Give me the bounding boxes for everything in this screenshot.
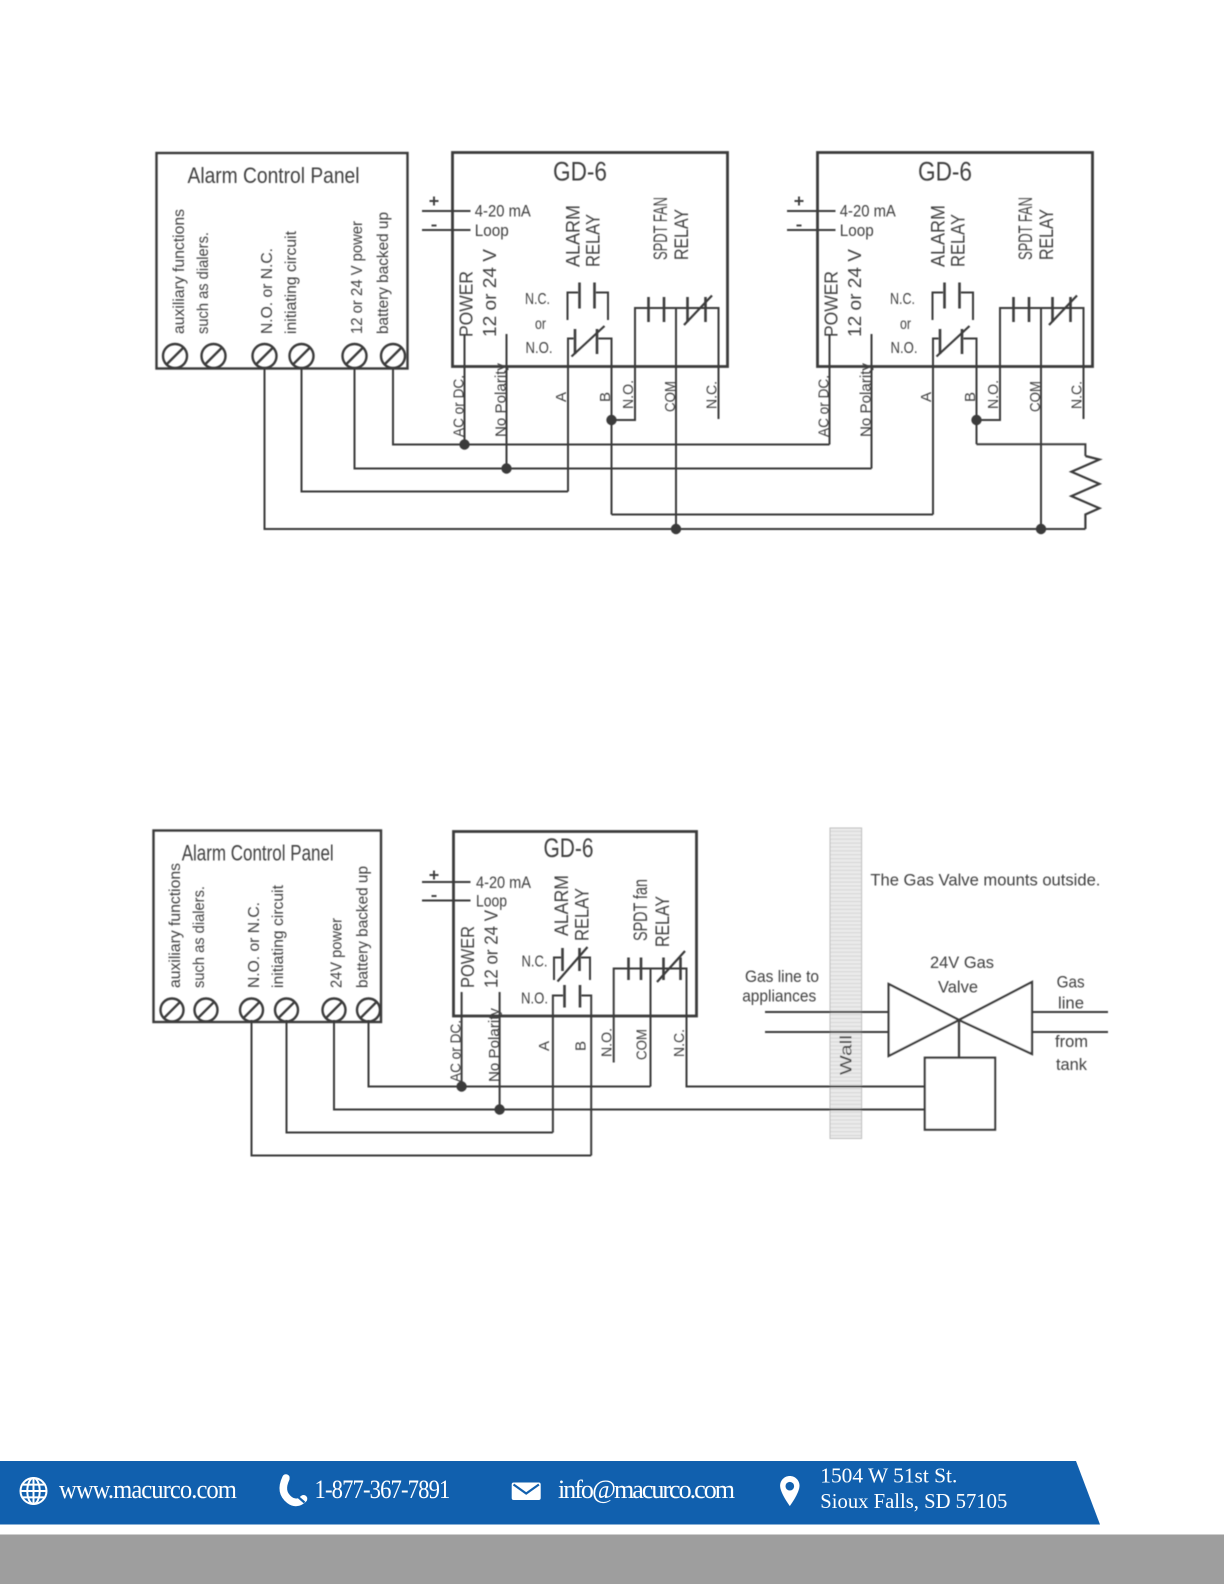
globe icon — [21, 1478, 47, 1504]
junction: COM GD1 on return — [671, 524, 681, 534]
GD-6 detector 2 box — [818, 153, 1093, 367]
alarm control panel box — [157, 153, 408, 369]
wire: B pin GD1 below box — [611, 367, 613, 515]
junction: No-Polarity GD3 — [494, 1104, 504, 1114]
svg-text:RELAY: RELAY — [1037, 209, 1058, 260]
svg-text:ALARM: ALARM — [552, 875, 573, 936]
svg-text:GD-6: GD-6 — [553, 157, 607, 187]
wire: AC/DC pin GD3 below box — [461, 1016, 463, 1087]
wire: loop + (2) — [787, 210, 836, 212]
alarm relay N.C. contact (3, slashed, stubs) — [554, 958, 561, 981]
svg-text:POWER: POWER — [456, 271, 476, 337]
svg-text:A: A — [536, 1041, 553, 1051]
4-20 mA loop + terminal (1) — [430, 200, 439, 202]
junction: No-Polarity GD1 — [501, 463, 511, 473]
alarm relay contact slash (1) — [572, 326, 605, 357]
terminal screw 6 — [357, 999, 380, 1022]
wire: No-Polarity pin GD2 below box — [871, 367, 873, 469]
footer gray bar — [0, 1535, 1224, 1584]
svg-text:RELAY: RELAY — [584, 214, 605, 267]
wire: loop + (1) — [422, 210, 471, 212]
terminal screw 4 — [275, 999, 298, 1022]
junction: B/N.O. GD1 — [606, 415, 616, 425]
svg-text:line: line — [1058, 994, 1084, 1013]
fan relay N.O. contact bars (2) — [1012, 297, 1015, 322]
gas pipe to appliances (upper) — [765, 1011, 889, 1013]
wire: N.O. fan GD1 jog to B — [612, 367, 636, 421]
fan relay N.C. slash (1) — [684, 296, 712, 326]
svg-text:or: or — [900, 316, 912, 333]
svg-text:24V Gas: 24V Gas — [930, 954, 994, 972]
terminal screw 6 — [381, 344, 405, 368]
svg-text:N.C.: N.C. — [890, 291, 915, 308]
phone icon — [283, 1478, 303, 1502]
wire: power AC/DC (1) — [464, 334, 466, 367]
wire: power No-Polarity (1) — [506, 334, 508, 367]
terminal screw 1 — [161, 999, 184, 1022]
svg-text:N.O.: N.O. — [526, 340, 553, 357]
fan relay N.C. contact bars (2) — [1051, 297, 1054, 322]
junction: AC/DC GD3 — [456, 1081, 466, 1091]
wire: power No-Polarity (2) — [871, 334, 873, 367]
svg-text:12 or 24 V power: 12 or 24 V power — [349, 221, 366, 334]
alarm relay N.C. contact (1) — [568, 293, 579, 321]
svg-text:N.O.: N.O. — [891, 340, 918, 357]
wire: B pin GD2 below box — [976, 367, 978, 445]
svg-text:B: B — [572, 1041, 589, 1051]
wire: No-Polarity pin GD1 below box — [506, 367, 508, 469]
gas pipe from tank (lower) — [1032, 1031, 1108, 1033]
svg-text:Gas line to: Gas line to — [745, 968, 819, 986]
svg-text:RELAY: RELAY — [653, 896, 674, 947]
GD-6 detector 1 box — [453, 153, 728, 367]
junction: AC/DC GD1 power — [459, 439, 469, 449]
fan relay bus wire (2) — [1000, 308, 1084, 367]
svg-text:Loop: Loop — [475, 222, 509, 240]
fan relay N.C. slash (3) — [657, 951, 685, 982]
svg-text:4-20 mA: 4-20 mA — [476, 874, 531, 892]
svg-text:RELAY: RELAY — [672, 209, 693, 260]
svg-text:POWER: POWER — [821, 271, 841, 337]
svg-text:Loop: Loop — [840, 222, 874, 240]
wire: A pin GD2 below box — [932, 367, 934, 515]
wire: AC/DC pin GD1 below box — [464, 367, 466, 445]
wire: battery terminal T6 to AC/DC power both GD — [393, 369, 830, 445]
svg-text:N.C.: N.C. — [671, 1029, 688, 1057]
svg-text:Wall: Wall — [838, 1035, 856, 1075]
svg-text:1504 W 51st St.: 1504 W 51st St. — [820, 1464, 957, 1488]
svg-text:4-20 mA: 4-20 mA — [840, 203, 896, 221]
svg-text:24V power: 24V power — [329, 918, 346, 988]
svg-text:appliances: appliances — [742, 988, 816, 1006]
junction: B/N.O. GD2 — [971, 415, 981, 425]
svg-text:POWER: POWER — [458, 926, 478, 988]
wall (hatched) — [830, 828, 862, 1139]
fan relay N.C. contact bars (3) — [662, 958, 665, 981]
svg-text:www.macurco.com: www.macurco.com — [59, 1475, 237, 1504]
svg-text:Gas: Gas — [1057, 972, 1085, 991]
wire: N.C. stub GD1 — [718, 367, 720, 420]
svg-text:Valve: Valve — [938, 979, 978, 997]
fan relay N.O. contact bars (1) — [647, 297, 650, 322]
valve actuator box (24V solenoid) — [925, 1058, 995, 1130]
fan relay N.C. slash (2) — [1049, 296, 1077, 326]
wire: 24V terminal T5b to No-Polarity and valve — [334, 1020, 925, 1110]
svg-text:RELAY: RELAY — [573, 888, 594, 941]
svg-text:ALARM: ALARM — [929, 205, 950, 267]
fan relay bus wire (1) — [635, 308, 719, 367]
svg-text:such as dialers.: such as dialers. — [195, 232, 212, 334]
fan relay COM wire (3) — [650, 969, 652, 1017]
gas pipe from tank (upper) — [1032, 1011, 1108, 1013]
wire: power AC/DC (3) — [461, 992, 463, 1016]
wire: COM GD1 below box — [675, 367, 677, 530]
terminal screw 5 — [343, 344, 367, 368]
wire: A pin GD1 below box — [567, 367, 569, 492]
svg-text:COM: COM — [633, 1029, 650, 1060]
terminal screw 1 — [163, 344, 187, 368]
4-20 mA loop - terminal (1) — [432, 225, 437, 227]
GD-6 detector 1 — [422, 153, 728, 438]
svg-text:N.O. or N.C.: N.O. or N.C. — [246, 902, 263, 988]
wire: N.O. terminal T3 common return — [265, 369, 1086, 530]
GD-6 detector 3 — [422, 832, 697, 1083]
wire: 12/24V terminal T5 to No-Polarity both GD — [355, 369, 872, 469]
4-20 mA loop - terminal (3) — [432, 895, 437, 897]
wire: B GD1 to A GD2 — [612, 514, 934, 516]
svg-text:battery backed up: battery backed up — [375, 212, 392, 334]
wire: AC/DC pin GD2 below box — [829, 367, 831, 445]
terminal screw 3 — [253, 344, 277, 368]
footer blue banner — [0, 1461, 1100, 1525]
svg-text:RELAY: RELAY — [949, 214, 970, 267]
svg-text:auxiliary functions: auxiliary functions — [167, 863, 184, 988]
valve stem — [958, 1020, 960, 1058]
4-20 mA loop + terminal (2) — [795, 200, 804, 202]
alarm relay contact slash (2) — [937, 326, 970, 357]
svg-text:auxiliary functions: auxiliary functions — [171, 209, 188, 334]
alarm relay N.C. slash (3) — [558, 947, 588, 982]
svg-text:GD-6: GD-6 — [544, 833, 594, 863]
svg-text:initiating circuit: initiating circuit — [270, 884, 287, 988]
wire: loop - (1) — [422, 229, 471, 231]
svg-text:GD-6: GD-6 — [918, 157, 972, 187]
svg-text:SPDT FAN: SPDT FAN — [1016, 197, 1037, 260]
svg-text:N.C.: N.C. — [525, 291, 550, 308]
svg-text:N.C.: N.C. — [522, 954, 548, 971]
wire: loop - (2) — [787, 229, 836, 231]
alarm relay N.O. contact (1) — [568, 339, 574, 367]
terminal screw 3 — [240, 999, 263, 1022]
terminal screw 4 — [290, 344, 314, 368]
wire: B GD2 to EOL resistor — [977, 444, 1086, 456]
wire: N.C. GD3 to gas valve — [687, 1016, 925, 1087]
svg-text:Alarm Control Panel: Alarm Control Panel — [182, 841, 334, 866]
svg-text:12 or 24 V: 12 or 24 V — [845, 249, 865, 337]
svg-text:info@macurco.com: info@macurco.com — [558, 1475, 735, 1504]
fan relay COM wire (2) — [1040, 308, 1042, 367]
svg-text:or: or — [535, 316, 547, 333]
gas valve body (bowtie) — [889, 984, 959, 1056]
fan relay N.C. contact bars (1) — [686, 297, 689, 322]
terminal screw 2 — [195, 999, 218, 1022]
wire: initiating terminal T4b to A GD3 — [287, 1020, 553, 1133]
svg-text:tank: tank — [1056, 1055, 1087, 1074]
wire: N.O. terminal T3b to B GD3 — [252, 1020, 592, 1156]
terminal screw 5 — [323, 999, 346, 1022]
alarm relay N.C. contact (2) — [933, 293, 944, 321]
fan relay bus wire (3) — [614, 969, 687, 1017]
wire: loop - (3) — [422, 900, 471, 902]
resistor R-EOL — [1071, 456, 1099, 529]
svg-text:SPDT FAN: SPDT FAN — [651, 197, 672, 260]
wire: No-Polarity pin GD3 below box — [499, 1016, 501, 1110]
fan relay COM wire (1) — [675, 308, 677, 367]
wire: N.C. stub GD2 — [1083, 367, 1085, 420]
alarm control panel box — [154, 831, 382, 1023]
svg-text:Sioux Falls, SD 57105: Sioux Falls, SD 57105 — [820, 1489, 1007, 1513]
svg-text:N.O.: N.O. — [521, 991, 548, 1008]
svg-text:such as dialers.: such as dialers. — [191, 886, 208, 988]
wire: N.O. fan GD2 jog to B — [977, 367, 1001, 421]
wire: N.O. fan stub GD3 — [613, 1016, 615, 1063]
alarm control panel 2 box — [154, 831, 382, 1023]
svg-text:The Gas Valve mounts outside.: The Gas Valve mounts outside. — [870, 871, 1100, 890]
junction: COM GD2 on return — [1036, 524, 1046, 534]
svg-text:12 or 24 V: 12 or 24 V — [481, 910, 501, 988]
alarm relay N.O. contact (3, wired A-B) — [553, 996, 563, 1017]
wire: B pin GD3 below box — [590, 1016, 592, 1156]
svg-text:battery backed up: battery backed up — [355, 866, 372, 988]
wire: A pin GD3 below box — [552, 1016, 554, 1133]
svg-text:N.O. or N.C.: N.O. or N.C. — [259, 248, 276, 334]
terminal screw 2 — [202, 344, 226, 368]
svg-text:ALARM: ALARM — [564, 205, 585, 267]
alarm relay N.O. contact (2) — [933, 339, 939, 367]
4-20 mA loop + terminal (3) — [430, 874, 439, 876]
svg-text:Loop: Loop — [476, 893, 507, 911]
svg-text:SPDT fan: SPDT fan — [631, 879, 652, 941]
GD-6 detector 3 box — [454, 832, 697, 1017]
gas pipe to appliances (lower) — [765, 1031, 889, 1033]
wire: COM GD3 to battery feed — [650, 1016, 652, 1087]
envelope icon — [512, 1483, 541, 1501]
svg-text:initiating circuit: initiating circuit — [283, 230, 300, 334]
svg-text:12 or 24 V: 12 or 24 V — [480, 249, 500, 337]
fan relay N.O. contact bars (3) — [627, 958, 630, 981]
svg-text:from: from — [1055, 1032, 1088, 1051]
wire: loop + (3) — [422, 881, 471, 883]
wire: power No-Polarity (3) — [499, 992, 501, 1016]
location pin icon — [780, 1476, 799, 1506]
wire: battery terminal T6b to AC/DC and COM — [369, 1020, 651, 1087]
svg-text:4-20 mA: 4-20 mA — [475, 203, 531, 221]
svg-text:1-877-367-7891: 1-877-367-7891 — [315, 1475, 450, 1504]
wire: COM GD2 below box — [1040, 367, 1042, 530]
svg-text:Alarm Control Panel: Alarm Control Panel — [188, 163, 360, 188]
4-20 mA loop - terminal (2) — [797, 225, 802, 227]
wire: power AC/DC (2) — [829, 334, 831, 367]
wire: initiating terminal T4 to A GD1 — [302, 369, 569, 492]
GD-6 detector 2 — [787, 153, 1093, 438]
